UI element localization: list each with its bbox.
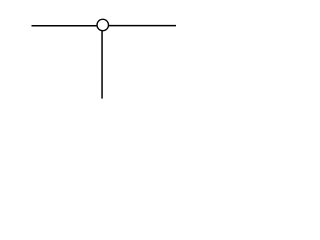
wire [108, 25, 176, 27]
wire [32, 25, 98, 27]
node [97, 19, 109, 31]
wire [101, 31, 103, 99]
